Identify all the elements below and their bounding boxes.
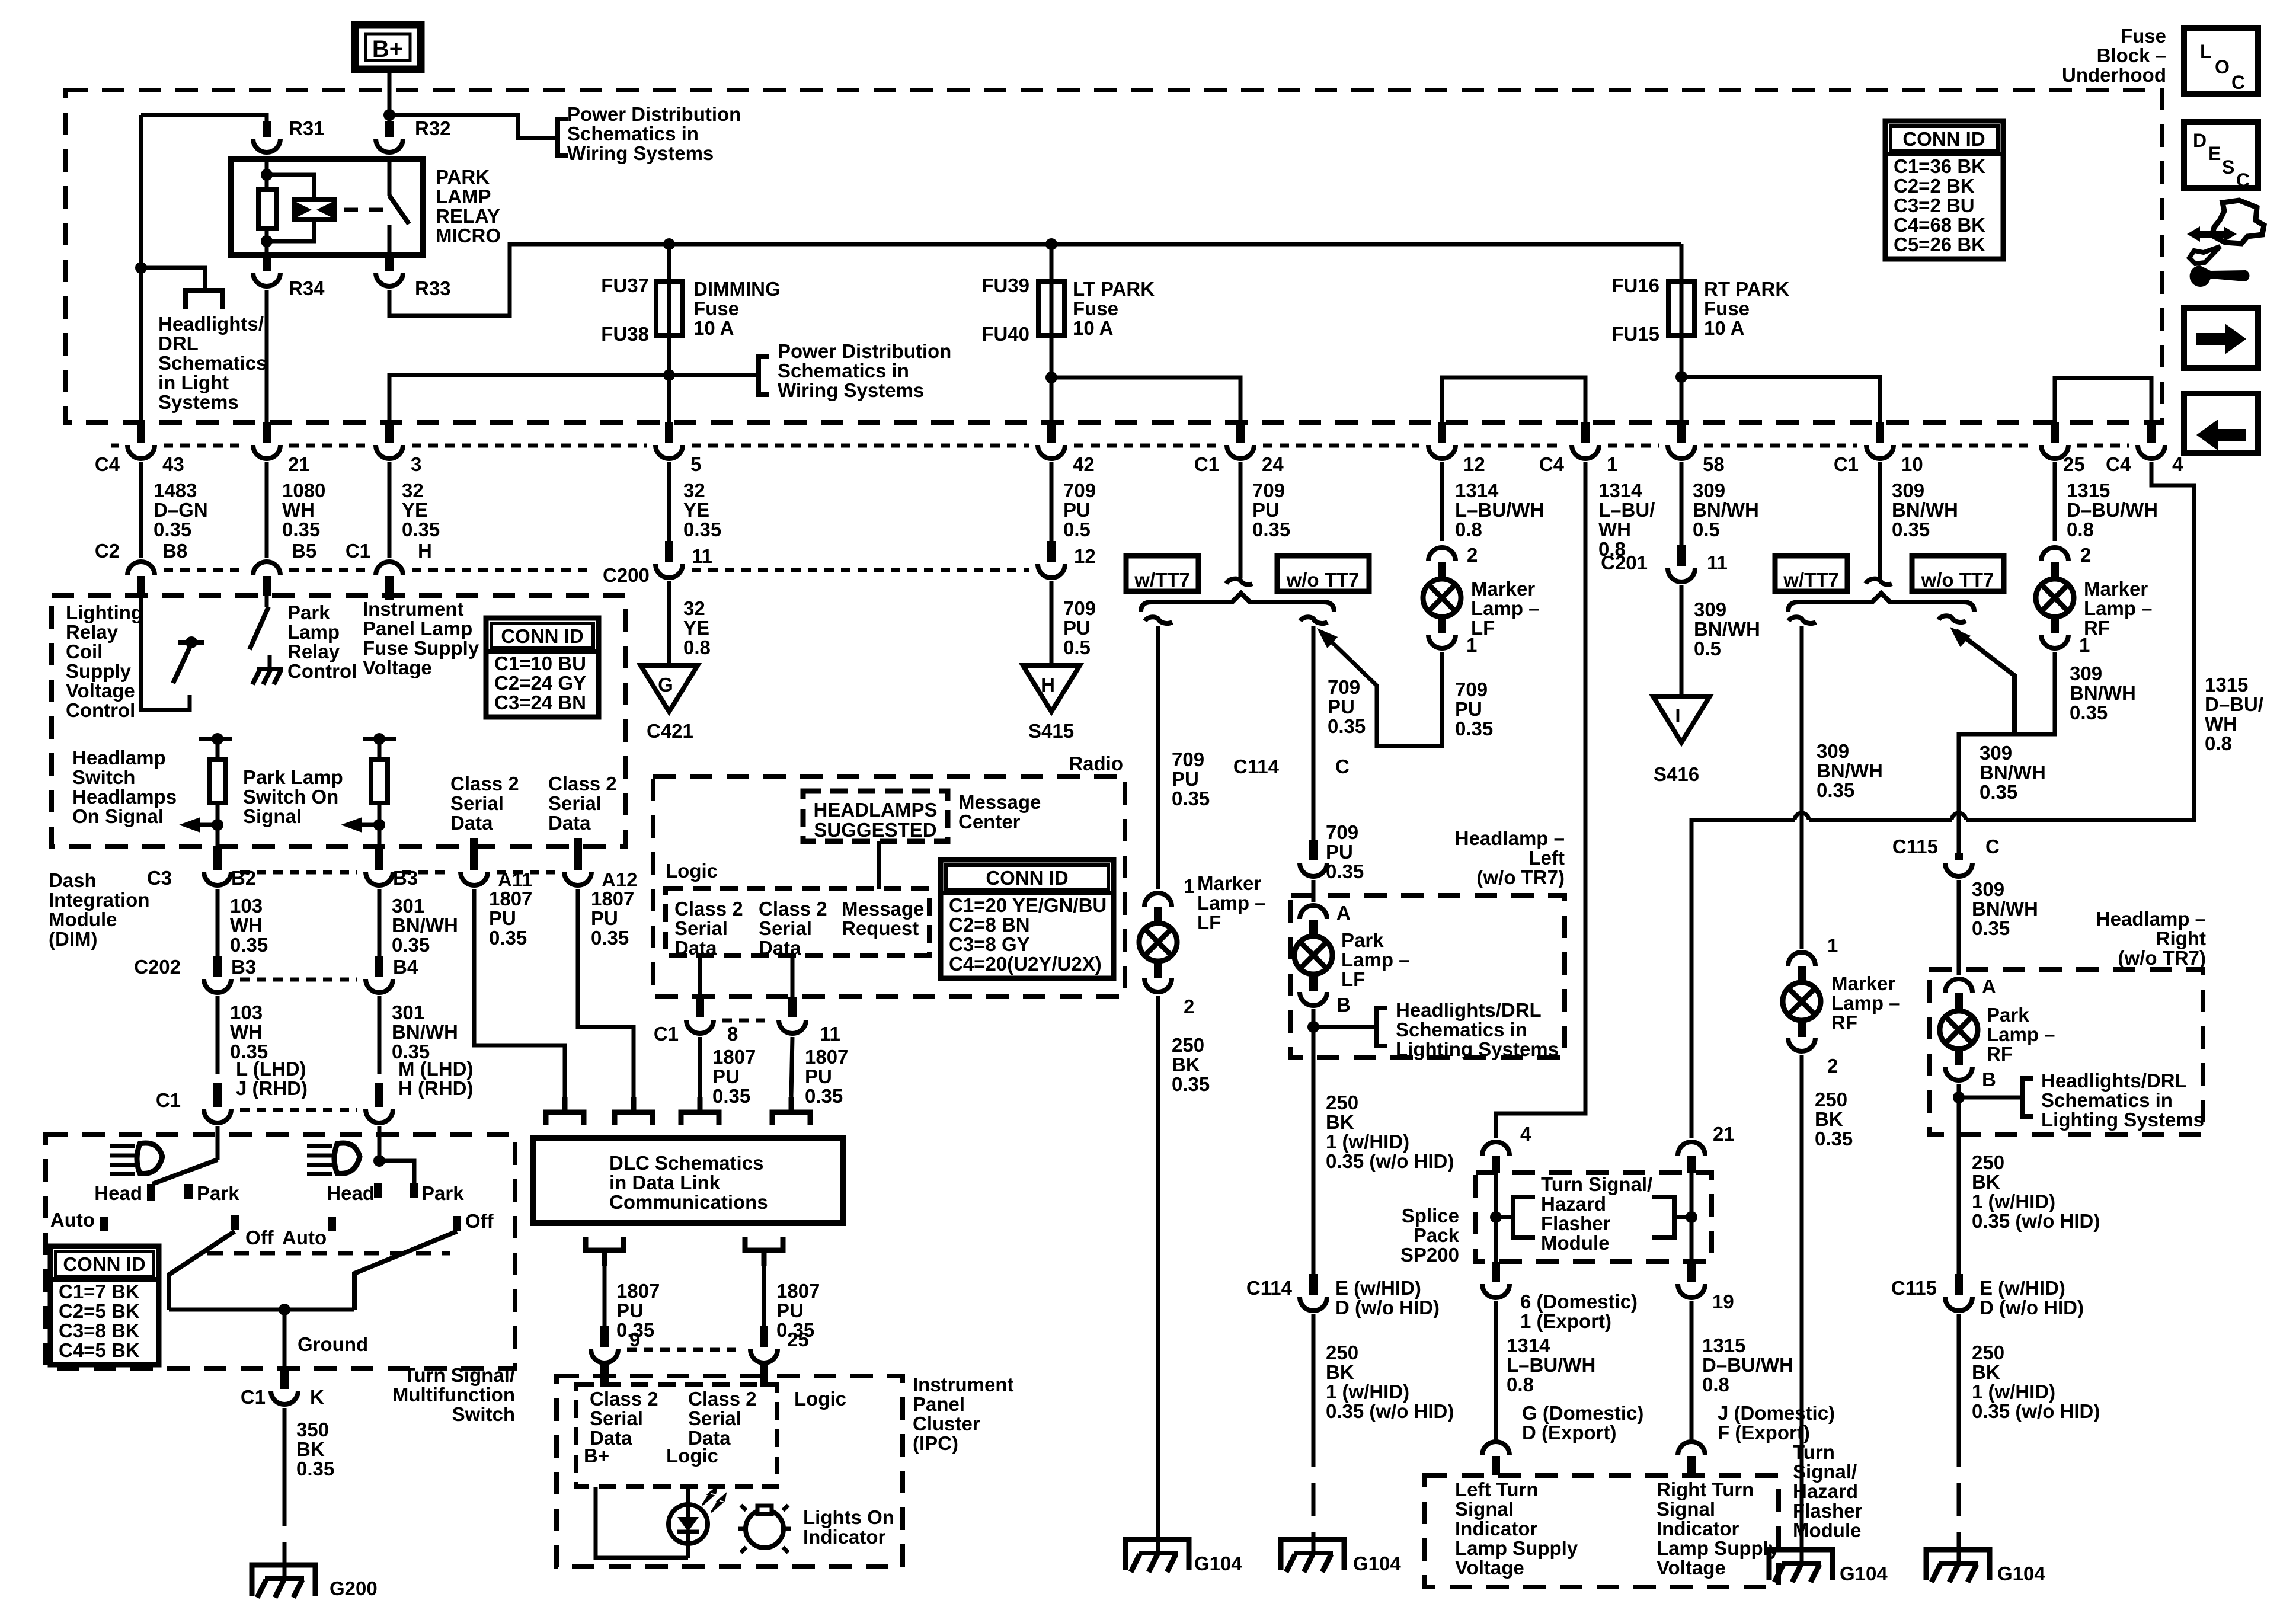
svg-text:Voltage: Voltage xyxy=(363,657,432,678)
IPC dashed box xyxy=(557,1376,903,1567)
svg-text:0.35: 0.35 xyxy=(1326,860,1364,882)
connector fuse block exit pin 24 xyxy=(1236,422,1245,443)
connector fuse block exit pin 12 xyxy=(1438,422,1446,443)
svg-text:C4=20(U2Y/U2X): C4=20(U2Y/U2X) xyxy=(949,953,1102,975)
resistor relay coil suppression xyxy=(258,190,276,228)
contact auto 1 xyxy=(100,1217,108,1231)
svg-text:F (Export): F (Export) xyxy=(1718,1422,1810,1443)
svg-text:B2: B2 xyxy=(231,867,256,889)
svg-text:C2=24 GY: C2=24 GY xyxy=(494,672,586,694)
svg-text:FU37: FU37 xyxy=(601,274,649,296)
svg-text:Park: Park xyxy=(197,1182,239,1204)
svg-text:R33: R33 xyxy=(415,277,451,299)
svg-text:G200: G200 xyxy=(330,1577,378,1599)
connector marker LF 1 xyxy=(1144,893,1172,907)
svg-text:Indicator: Indicator xyxy=(1657,1518,1739,1539)
svg-text:BK: BK xyxy=(1815,1108,1843,1130)
svg-text:LAMP: LAMP xyxy=(436,185,491,207)
svg-text:WH: WH xyxy=(230,1021,263,1043)
svg-text:709: 709 xyxy=(1326,821,1358,843)
svg-text:CONN ID: CONN ID xyxy=(501,625,583,647)
wires class 2 stubs in DIM xyxy=(470,838,478,846)
relay coil branch wiring xyxy=(265,159,269,190)
radio logic inner dashed box xyxy=(666,889,929,955)
svg-text:J (RHD): J (RHD) xyxy=(236,1077,308,1099)
svg-text:0.35: 0.35 xyxy=(591,927,629,949)
svg-text:Control: Control xyxy=(66,699,135,721)
svg-text:1315: 1315 xyxy=(2205,674,2248,696)
svg-text:Message: Message xyxy=(958,791,1041,813)
wire A12 to DLC xyxy=(578,889,634,1097)
svg-text:Class 2: Class 2 xyxy=(590,1388,658,1410)
wire marker RF 25 feed xyxy=(2053,462,2057,541)
svg-text:709: 709 xyxy=(1063,597,1096,619)
connector row radio bottom xyxy=(722,1019,770,1023)
svg-text:PARK: PARK xyxy=(436,166,490,188)
wire into headlamp left box xyxy=(1312,880,1316,902)
svg-text:Lamp –: Lamp – xyxy=(1831,992,1900,1014)
svg-text:BK: BK xyxy=(1326,1111,1354,1133)
svg-text:LT PARK: LT PARK xyxy=(1073,278,1155,300)
icon dog-face wrench xyxy=(2187,200,2264,287)
svg-text:Schematics in: Schematics in xyxy=(1396,1019,1527,1041)
connector marker LF2 pin2 xyxy=(1428,548,1456,561)
connector marker LF2 pin1 xyxy=(1428,635,1456,648)
headlamp left dashed box xyxy=(1291,895,1565,1058)
wire B+ down to R32 xyxy=(388,69,392,129)
connector R31 xyxy=(263,121,271,137)
svg-text:PU: PU xyxy=(1063,617,1091,639)
DLC box xyxy=(533,1138,843,1223)
node headlights DRL branch right xyxy=(1953,1092,1965,1103)
svg-text:C1: C1 xyxy=(1194,453,1219,475)
svg-text:1 (w/HID): 1 (w/HID) xyxy=(1326,1381,1409,1403)
arrow headlamp switch on signal xyxy=(212,819,223,831)
wire ipc b+ branch xyxy=(596,1487,688,1558)
svg-text:FU15: FU15 xyxy=(1611,323,1659,345)
svg-text:B8: B8 xyxy=(162,540,187,562)
fuse block - underhood dashed box xyxy=(65,90,2162,422)
svg-text:PU: PU xyxy=(805,1065,832,1087)
wires down to C200 connectors xyxy=(139,462,143,558)
svg-text:Marker: Marker xyxy=(1471,578,1535,600)
wire ground down xyxy=(283,1310,287,1368)
svg-text:Lamp: Lamp xyxy=(287,621,340,643)
svg-text:Park: Park xyxy=(1341,929,1384,951)
connector R33 xyxy=(385,255,394,271)
svg-text:C3=8 BK: C3=8 BK xyxy=(59,1320,140,1342)
connector DIM bottom B3 xyxy=(375,846,383,870)
bracket headlights DRL lighting systems right xyxy=(2022,1078,2033,1116)
bracket headlights DRL in light systems xyxy=(186,290,222,309)
switch park lamp relay control xyxy=(265,596,269,607)
svg-text:25: 25 xyxy=(2063,453,2085,475)
node splice 21 xyxy=(1686,1211,1697,1223)
svg-text:Off: Off xyxy=(245,1227,274,1249)
wire C1-10 feed down xyxy=(1878,462,1882,578)
wire 709 PU to S415 xyxy=(1050,581,1054,665)
svg-text:1807: 1807 xyxy=(805,1046,848,1068)
svg-text:C2=8 BN: C2=8 BN xyxy=(949,914,1030,936)
wire 1314 to indicator xyxy=(1494,1301,1498,1444)
svg-text:Data: Data xyxy=(674,937,717,959)
wire diagonal option right xyxy=(1956,630,2014,734)
svg-text:Headlights/: Headlights/ xyxy=(158,313,264,335)
svg-text:G104: G104 xyxy=(1997,1563,2045,1585)
connector C200 pin at x=1774 xyxy=(1047,541,1056,562)
svg-text:Lamp –: Lamp – xyxy=(1197,892,1266,914)
svg-text:PU: PU xyxy=(712,1065,740,1087)
svg-text:Module: Module xyxy=(49,908,117,930)
svg-text:SUGGESTED: SUGGESTED xyxy=(814,819,936,841)
svg-text:Headlights/DRL: Headlights/DRL xyxy=(1396,999,1542,1021)
indicator bulb lights on xyxy=(738,1505,791,1553)
wire dlc 25 to ipc xyxy=(762,1266,766,1326)
svg-text:Power Distribution: Power Distribution xyxy=(567,103,741,125)
wire dashed to ground right xyxy=(1957,1434,1961,1550)
connector fuse block exit pin 5 xyxy=(665,422,673,443)
svg-text:Class 2: Class 2 xyxy=(688,1388,757,1410)
svg-text:32: 32 xyxy=(402,479,424,501)
svg-text:Class 2: Class 2 xyxy=(450,773,519,795)
svg-text:Switch On: Switch On xyxy=(243,786,338,808)
svg-text:M (LHD): M (LHD) xyxy=(398,1058,473,1080)
svg-text:0.35 (w/o HID): 0.35 (w/o HID) xyxy=(1972,1210,2100,1232)
svg-text:10 A: 10 A xyxy=(1704,317,1744,339)
wire ground bus switch xyxy=(169,1308,354,1312)
svg-text:K: K xyxy=(310,1386,324,1408)
hook feed end right xyxy=(1866,579,1892,585)
svg-text:Voltage: Voltage xyxy=(66,680,135,702)
relay switch contact xyxy=(388,159,392,196)
svg-text:C2=5 BK: C2=5 BK xyxy=(59,1300,140,1322)
svg-text:C: C xyxy=(2231,72,2245,93)
relay PARK LAMP RELAY MICRO box xyxy=(231,159,423,255)
svg-text:0.35: 0.35 xyxy=(1172,1073,1210,1095)
connector R34 xyxy=(263,255,271,271)
svg-text:0.35: 0.35 xyxy=(1815,1128,1853,1150)
svg-text:WH: WH xyxy=(282,499,315,521)
contact head 1 xyxy=(147,1184,155,1201)
svg-text:G (Domestic): G (Domestic) xyxy=(1522,1402,1643,1424)
wire dlc 9 to ipc xyxy=(603,1266,607,1326)
svg-text:A: A xyxy=(1336,902,1351,924)
svg-text:309: 309 xyxy=(1817,740,1849,762)
svg-text:1 (w/HID): 1 (w/HID) xyxy=(1972,1190,2055,1212)
svg-text:DIMMING: DIMMING xyxy=(693,278,781,300)
svg-text:1 (w/HID): 1 (w/HID) xyxy=(1972,1381,2055,1403)
svg-text:C4=68 BK: C4=68 BK xyxy=(1894,214,1985,236)
svg-text:Signal: Signal xyxy=(243,805,302,827)
svg-text:301: 301 xyxy=(392,1001,424,1023)
svg-text:250: 250 xyxy=(1172,1034,1204,1056)
svg-text:309: 309 xyxy=(2070,662,2102,684)
icon box arrow right xyxy=(2184,308,2258,368)
wire 250 BK lower right xyxy=(1957,1314,1961,1434)
node B+ branch xyxy=(383,109,395,121)
headlamp right dashed box xyxy=(1929,969,2203,1135)
svg-text:Park: Park xyxy=(287,601,330,623)
wire B2 line xyxy=(216,889,220,956)
svg-text:Supply: Supply xyxy=(66,660,132,682)
svg-text:10: 10 xyxy=(1901,453,1923,475)
svg-text:Message: Message xyxy=(842,898,924,920)
svg-text:Flasher: Flasher xyxy=(1541,1212,1611,1234)
headlamp icon 1 xyxy=(137,1143,162,1174)
message center headlamps suggested box xyxy=(803,791,948,841)
svg-text:Headlamps: Headlamps xyxy=(72,786,177,808)
connector C201-11 xyxy=(1677,545,1686,566)
splice triangle H S415 xyxy=(1023,665,1080,712)
svg-text:PU: PU xyxy=(489,907,516,929)
bracket headlights DRL lighting systems left xyxy=(1377,1008,1387,1046)
wire 32 YE to C421 xyxy=(667,581,671,665)
radio conn id table xyxy=(941,860,1114,978)
svg-text:Park: Park xyxy=(421,1182,464,1204)
connector park lamp RF A xyxy=(1945,979,1972,993)
wire hop C115 over 1315 line xyxy=(1952,813,1966,820)
connector C200 pin at x=1129 xyxy=(665,541,673,562)
connector marker LF 2 xyxy=(1144,978,1172,992)
svg-text:2: 2 xyxy=(1827,1055,1838,1077)
svg-text:Multifunction: Multifunction xyxy=(392,1384,515,1406)
svg-text:Switch: Switch xyxy=(72,766,135,788)
wire A11 to DLC xyxy=(474,889,565,1097)
svg-text:1314: 1314 xyxy=(1455,479,1499,501)
svg-text:FU38: FU38 xyxy=(601,323,649,345)
svg-text:250: 250 xyxy=(1972,1151,2004,1173)
svg-text:CONN ID: CONN ID xyxy=(1902,128,1985,150)
DIM conn id table xyxy=(486,618,599,717)
svg-text:Systems: Systems xyxy=(158,391,239,413)
svg-text:BN/WH: BN/WH xyxy=(1817,760,1883,782)
svg-text:0.35: 0.35 xyxy=(1980,781,2017,803)
connector marker RF2 pin1 xyxy=(2041,635,2068,648)
lamp park RF xyxy=(1940,1011,1978,1049)
svg-text:D (w/o HID): D (w/o HID) xyxy=(1980,1297,2084,1318)
svg-text:0.35: 0.35 xyxy=(282,518,320,540)
svg-text:WH: WH xyxy=(230,914,263,936)
svg-text:0.35: 0.35 xyxy=(392,934,430,956)
svg-text:1: 1 xyxy=(1184,875,1194,897)
icon box DESC xyxy=(2184,122,2258,191)
wire branch to power distribution bracket 1 xyxy=(389,115,558,138)
battery feed B+ xyxy=(355,25,421,69)
svg-text:Wiring Systems: Wiring Systems xyxy=(778,379,924,401)
indicator lamp supply dashed box xyxy=(1425,1475,1779,1587)
wire splice 4 through xyxy=(1494,1173,1498,1262)
svg-text:1807: 1807 xyxy=(591,888,634,910)
svg-text:PU: PU xyxy=(1172,768,1199,790)
svg-text:C114: C114 xyxy=(1246,1277,1293,1299)
svg-text:G104: G104 xyxy=(1353,1553,1401,1574)
svg-text:G104: G104 xyxy=(1840,1563,1888,1585)
svg-text:PU: PU xyxy=(1326,841,1353,863)
svg-text:BN/WH: BN/WH xyxy=(1694,618,1760,640)
fuse FU16 FU15 RT PARK xyxy=(1668,244,1694,335)
svg-text:Class 2: Class 2 xyxy=(759,898,827,920)
svg-text:HEADLAMPS: HEADLAMPS xyxy=(813,799,937,821)
connector marker RF w 2 xyxy=(1788,1038,1815,1051)
svg-text:On Signal: On Signal xyxy=(72,805,164,827)
svg-text:1: 1 xyxy=(1466,634,1477,656)
svg-text:0.35: 0.35 xyxy=(683,518,721,540)
svg-text:Fuse: Fuse xyxy=(693,297,739,319)
connector DLC pin bottom x=1289 xyxy=(745,1237,783,1266)
svg-text:Block –: Block – xyxy=(2097,44,2166,66)
svg-text:Module: Module xyxy=(1541,1232,1609,1254)
svg-text:C1=36 BK: C1=36 BK xyxy=(1894,155,1985,177)
connector DLC pin top x=1181 xyxy=(681,1097,719,1125)
svg-text:Headlamp –: Headlamp – xyxy=(1455,827,1565,849)
svg-text:42: 42 xyxy=(1073,453,1095,475)
svg-text:Cluster: Cluster xyxy=(913,1413,980,1435)
svg-text:D: D xyxy=(2193,130,2207,151)
wire 58 down to C201 xyxy=(1680,462,1684,545)
svg-text:Schematics: Schematics xyxy=(158,352,267,374)
svg-text:Left: Left xyxy=(1529,847,1565,869)
svg-text:PU: PU xyxy=(616,1299,644,1321)
svg-text:Center: Center xyxy=(958,811,1021,833)
connector fuse block exit pin 25 xyxy=(2051,422,2059,443)
svg-text:S: S xyxy=(2222,156,2234,178)
svg-text:Schematics in: Schematics in xyxy=(2041,1089,2173,1111)
bracket splice right xyxy=(1652,1197,1674,1237)
svg-text:Lamp –: Lamp – xyxy=(1341,949,1410,971)
svg-text:309: 309 xyxy=(1972,878,2004,900)
connector row line fuse block bottom xyxy=(111,444,119,448)
svg-text:PU: PU xyxy=(591,907,618,929)
svg-text:1 (w/HID): 1 (w/HID) xyxy=(1326,1131,1409,1153)
connector DLC pin top x=1335 xyxy=(772,1097,810,1125)
svg-text:R32: R32 xyxy=(415,117,451,139)
svg-text:PU: PU xyxy=(1063,499,1091,521)
svg-text:Indicator: Indicator xyxy=(1455,1518,1538,1539)
connector C202 B4 xyxy=(375,956,383,977)
svg-text:Dash: Dash xyxy=(49,869,97,891)
wire marker RF ground xyxy=(1800,1055,1804,1550)
svg-text:BK: BK xyxy=(296,1438,325,1460)
svg-text:Serial: Serial xyxy=(548,792,602,814)
svg-text:1314: 1314 xyxy=(1598,479,1642,501)
svg-text:0.35 (w/o HID): 0.35 (w/o HID) xyxy=(1326,1400,1454,1422)
svg-text:Signal: Signal xyxy=(1657,1498,1715,1520)
wire to bracket lighting systems xyxy=(1313,1025,1377,1029)
svg-text:CONN ID: CONN ID xyxy=(63,1253,145,1275)
mechanical linkage dashed xyxy=(207,1251,450,1256)
connector row DIM bottom xyxy=(240,870,357,875)
wire 1315 feed from exit 4 xyxy=(1966,462,2194,820)
svg-text:C1: C1 xyxy=(241,1386,266,1408)
svg-text:0.5: 0.5 xyxy=(1694,638,1721,660)
svg-text:L–BU/WH: L–BU/WH xyxy=(1507,1354,1595,1376)
wire B4 lower xyxy=(378,996,382,1074)
svg-text:BN/WH: BN/WH xyxy=(1980,761,2046,783)
svg-text:12: 12 xyxy=(1074,545,1096,567)
switch blade off-auto 1 xyxy=(169,1231,235,1310)
svg-text:B+: B+ xyxy=(372,36,403,62)
wire park RF down xyxy=(1957,1084,1961,1274)
svg-text:709: 709 xyxy=(1172,748,1204,770)
resistor headlamp switch divider xyxy=(199,737,232,741)
svg-text:1: 1 xyxy=(1827,934,1838,956)
wire into headlamp right box xyxy=(1957,880,1961,975)
svg-text:C: C xyxy=(1985,836,2000,857)
branch curl w/TT7 right xyxy=(1789,617,1816,623)
svg-text:CONN ID: CONN ID xyxy=(986,867,1068,889)
svg-text:C115: C115 xyxy=(1891,1277,1937,1299)
svg-text:309: 309 xyxy=(1694,598,1726,620)
connector radio 11 xyxy=(791,954,795,997)
svg-text:(DIM): (DIM) xyxy=(49,928,97,950)
connector IPC 9 xyxy=(600,1326,609,1347)
wire 1807 PU radio 8 xyxy=(698,1037,702,1097)
splice triangle I S416 xyxy=(1653,696,1710,742)
svg-text:Serial: Serial xyxy=(759,917,812,939)
svg-text:PU: PU xyxy=(1252,499,1280,521)
connector indicator right xyxy=(1678,1442,1705,1455)
svg-text:0.35: 0.35 xyxy=(230,934,268,956)
svg-text:B5: B5 xyxy=(292,540,316,562)
svg-text:2: 2 xyxy=(1467,544,1478,566)
connector row C200 xyxy=(164,568,244,572)
svg-text:1080: 1080 xyxy=(282,479,325,501)
svg-text:1483: 1483 xyxy=(154,479,197,501)
wire dashed to G200 xyxy=(283,1493,287,1565)
svg-text:Control: Control xyxy=(287,660,357,682)
svg-text:0.35: 0.35 xyxy=(2070,702,2108,724)
svg-text:C1=20 YE/GN/BU: C1=20 YE/GN/BU xyxy=(949,894,1107,916)
svg-text:Fuse: Fuse xyxy=(1073,297,1118,319)
svg-text:Request: Request xyxy=(842,917,919,939)
svg-text:Serial: Serial xyxy=(674,917,728,939)
headlamp icon 2 xyxy=(334,1143,360,1174)
connector fuse block exit pin 21 xyxy=(263,422,271,443)
svg-text:5: 5 xyxy=(690,453,701,475)
svg-text:C1=10 BU: C1=10 BU xyxy=(494,652,586,674)
svg-text:Lighting Systems: Lighting Systems xyxy=(1396,1038,1559,1060)
svg-text:0.8: 0.8 xyxy=(2205,732,2232,754)
svg-text:B: B xyxy=(1982,1068,1996,1090)
svg-text:C5=26 BK: C5=26 BK xyxy=(1894,233,1985,255)
lamp marker LF 12 xyxy=(1423,579,1461,617)
svg-text:0.8: 0.8 xyxy=(1455,518,1482,540)
svg-text:0.5: 0.5 xyxy=(1693,518,1720,540)
wire marker RF2 return xyxy=(1959,652,2055,853)
svg-text:FU16: FU16 xyxy=(1611,274,1659,296)
svg-text:0.35: 0.35 xyxy=(1892,518,1930,540)
box w/o TT7 left xyxy=(1277,556,1369,591)
LED lights on driver xyxy=(669,1505,708,1544)
svg-text:Instrument: Instrument xyxy=(363,598,464,620)
splice triangle G C421 xyxy=(641,665,698,712)
svg-text:Class 2: Class 2 xyxy=(674,898,743,920)
dashed actuator linkage xyxy=(344,208,384,212)
branch curl w/o TT7 left xyxy=(1300,617,1328,623)
svg-text:0.35: 0.35 xyxy=(712,1085,750,1107)
turn signal multifunction switch dashed box xyxy=(46,1134,515,1368)
connector park lamp LF A xyxy=(1300,905,1327,919)
branch curl w/TT7 left xyxy=(1145,617,1172,623)
connector flasher 4 xyxy=(1482,1142,1510,1156)
svg-text:1315: 1315 xyxy=(1702,1334,1745,1356)
contact off 2 xyxy=(453,1216,461,1231)
hook feed end xyxy=(1226,579,1252,585)
resistor park lamp switch divider xyxy=(363,737,396,741)
svg-text:11: 11 xyxy=(820,1023,840,1045)
connector marker RF w 1 xyxy=(1788,952,1815,966)
ground G104 marker LF xyxy=(1125,1539,1189,1572)
